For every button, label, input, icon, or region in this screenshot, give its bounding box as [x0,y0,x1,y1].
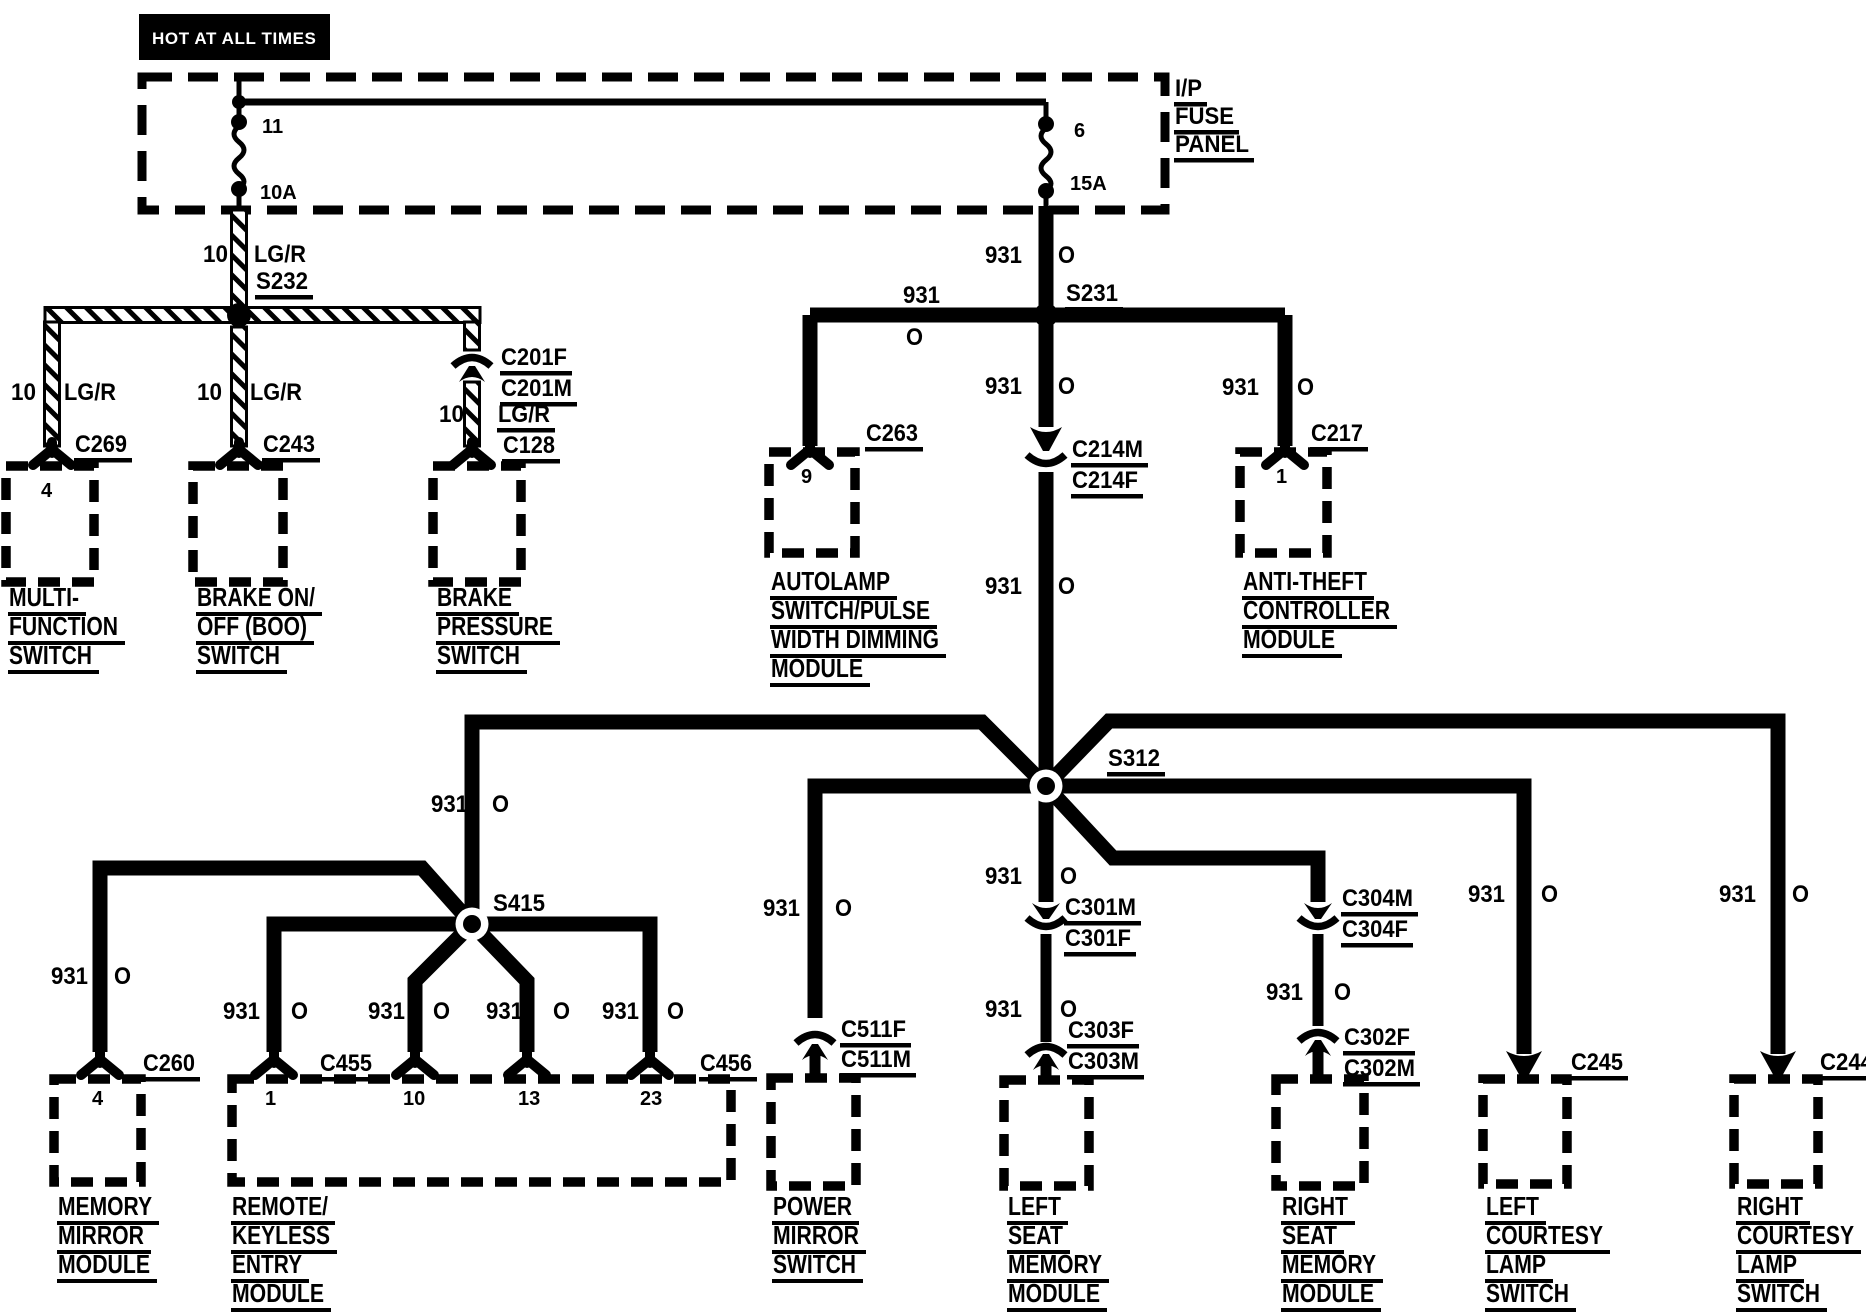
svg-text:LG/R: LG/R [250,379,302,406]
power feed label HOT AT ALL TIMES [139,14,330,60]
svg-text:O: O [1060,863,1077,890]
svg-text:FUNCTION: FUNCTION [9,611,118,641]
svg-text:O: O [835,895,852,922]
in-line connector C302F/C302M [1299,1033,1337,1042]
svg-text:MODULE: MODULE [1008,1278,1100,1308]
svg-text:SWITCH: SWITCH [9,640,92,670]
I/P fuse panel box [142,77,1165,210]
svg-text:4: 4 [41,480,53,502]
svg-text:11: 11 [262,116,283,138]
svg-text:SEAT: SEAT [1008,1220,1063,1250]
connector C244 arrow [1760,1051,1796,1078]
wire branch to S415 [472,722,1046,924]
svg-text:931: 931 [1266,979,1303,1006]
wire branch to left courtesy lamp switch [1046,786,1524,1054]
svg-text:C456: C456 [700,1050,752,1077]
junction node [232,95,246,109]
svg-text:MEMORY: MEMORY [58,1191,152,1221]
power mirror switch box [771,1078,856,1186]
svg-text:SEAT: SEAT [1282,1220,1337,1250]
svg-text:13: 13 [518,1088,540,1110]
svg-text:O: O [291,998,308,1025]
remote keyless entry module box [232,1079,731,1182]
svg-text:6: 6 [1074,120,1085,142]
svg-text:MODULE: MODULE [1243,624,1335,654]
wire 10 LG/R from fuse 11 [232,210,247,308]
splice S231 dot [1034,303,1058,327]
svg-text:COURTESY: COURTESY [1737,1220,1854,1250]
splice S312 dot [1030,770,1063,803]
svg-text:C201M: C201M [501,375,572,402]
svg-text:MODULE: MODULE [1282,1278,1374,1308]
svg-text:MIRROR: MIRROR [58,1220,144,1250]
svg-text:931: 931 [985,863,1022,890]
wire fuse-panel feed [237,77,242,122]
svg-text:931: 931 [1468,881,1505,908]
svg-text:MEMORY: MEMORY [1282,1249,1376,1279]
svg-text:C243: C243 [263,431,315,458]
svg-text:C303F: C303F [1068,1017,1134,1044]
wire branch to memory mirror module [100,868,472,1052]
svg-text:CONTROLLER: CONTROLLER [1243,595,1390,625]
svg-text:FUSE: FUSE [1175,103,1234,130]
svg-text:PRESSURE: PRESSURE [437,611,553,641]
wire 931 to C263 [803,315,818,446]
svg-text:C303M: C303M [1068,1048,1139,1075]
right courtesy lamp switch box [1734,1079,1818,1184]
connector C243 [220,442,258,465]
svg-text:931: 931 [985,242,1022,269]
svg-text:C511F: C511F [841,1016,906,1043]
connector C455 pin 1 [255,1052,293,1075]
svg-text:O: O [433,998,450,1025]
svg-text:10: 10 [439,401,464,428]
svg-text:931: 931 [51,963,88,990]
svg-text:C511M: C511M [841,1046,911,1073]
wire to C201F [465,322,480,350]
svg-text:OFF (BOO): OFF (BOO) [197,611,307,641]
svg-text:RIGHT: RIGHT [1282,1191,1348,1221]
svg-text:KEYLESS: KEYLESS [232,1220,330,1250]
svg-text:C245: C245 [1571,1049,1623,1076]
svg-text:AUTOLAMP: AUTOLAMP [771,566,890,596]
svg-text:23: 23 [640,1088,662,1110]
svg-text:LG/R: LG/R [254,241,306,268]
svg-text:931: 931 [368,998,405,1025]
svg-text:C214M: C214M [1072,436,1143,463]
svg-text:10A: 10A [260,182,297,204]
svg-text:MEMORY: MEMORY [1008,1249,1102,1279]
svg-text:MULTI-: MULTI- [9,582,79,612]
svg-text:PANEL: PANEL [1175,131,1249,158]
in-line connector C201F/C201M [453,358,491,367]
fuse 6 15A [1044,102,1049,124]
svg-text:C201F: C201F [501,344,567,371]
svg-text:C301F: C301F [1065,925,1131,952]
svg-text:O: O [667,998,684,1025]
svg-text:MODULE: MODULE [58,1249,150,1279]
svg-text:O: O [492,791,509,818]
LG/R distribution bus [45,308,480,323]
svg-text:O: O [1541,881,1558,908]
svg-text:SWITCH: SWITCH [1737,1278,1820,1308]
svg-text:O: O [1058,373,1075,400]
svg-text:S415: S415 [493,890,545,917]
svg-text:BRAKE ON/: BRAKE ON/ [197,582,315,612]
svg-text:931: 931 [985,373,1022,400]
svg-text:ANTI-THEFT: ANTI-THEFT [1243,566,1367,596]
svg-text:I/P: I/P [1175,75,1202,102]
right seat memory module box [1276,1079,1364,1186]
fuse 11 10A [231,114,247,130]
svg-text:SWITCH: SWITCH [437,640,520,670]
svg-text:BRAKE: BRAKE [437,582,512,612]
svg-text:REMOTE/: REMOTE/ [232,1191,328,1221]
wire branch to C455 pin 1 [274,924,472,1052]
svg-text:C128: C128 [503,432,555,459]
splice S232 dot [227,303,251,327]
svg-text:SWITCH: SWITCH [197,640,280,670]
svg-text:931: 931 [223,998,260,1025]
wire 931 to C214M [1039,315,1054,427]
svg-text:C269: C269 [75,431,127,458]
wire branch to pin 10 [415,924,472,1052]
svg-text:LG/R: LG/R [498,401,550,428]
left seat memory module box [1004,1080,1089,1186]
wire branch to power mirror switch [815,786,1046,1018]
splice S415 dot [456,908,489,941]
svg-text:931: 931 [1222,374,1259,401]
svg-text:10: 10 [403,1088,425,1110]
svg-text:SWITCH/PULSE: SWITCH/PULSE [771,595,930,625]
svg-text:LAMP: LAMP [1486,1249,1546,1279]
wire 931 down to C301M [1039,786,1054,902]
svg-text:931: 931 [985,996,1022,1023]
svg-text:POWER: POWER [773,1191,852,1221]
svg-text:O: O [1334,979,1351,1006]
svg-text:MODULE: MODULE [771,653,863,683]
wire 931 to C217 [1278,315,1293,446]
svg-text:O: O [1792,881,1809,908]
svg-text:C301M: C301M [1065,894,1136,921]
svg-text:15A: 15A [1070,173,1107,195]
connector C217 [1266,442,1304,465]
svg-text:C214F: C214F [1072,467,1138,494]
svg-text:C304M: C304M [1342,885,1413,912]
wire link to fuse 6 [239,99,1046,106]
wire branch to right courtesy lamp switch [1046,721,1778,1054]
svg-text:931: 931 [602,998,639,1025]
svg-text:COURTESY: COURTESY [1486,1220,1603,1250]
svg-text:O: O [1058,573,1075,600]
svg-text:C304F: C304F [1342,916,1408,943]
wire branch to pin 13 [472,924,527,1052]
svg-text:10: 10 [11,379,36,406]
svg-text:S312: S312 [1108,745,1160,772]
wire branch to right seat memory module [1046,786,1318,902]
svg-text:O: O [906,324,923,351]
svg-text:S232: S232 [256,268,308,295]
svg-text:SWITCH: SWITCH [773,1249,856,1279]
wire 931 to S312 [1039,472,1054,786]
svg-text:931: 931 [985,573,1022,600]
svg-text:931: 931 [1719,881,1756,908]
connector C456 pin 23 [631,1052,669,1075]
in-line connector C214M/C214F [1030,427,1062,451]
svg-text:O: O [114,963,131,990]
connector C245 arrow [1506,1051,1542,1078]
wire to C243 [232,327,247,446]
svg-text:S231: S231 [1066,280,1118,307]
svg-text:O: O [1297,374,1314,401]
svg-text:C260: C260 [143,1050,195,1077]
svg-text:4: 4 [92,1088,104,1110]
connector C269 [33,442,71,465]
svg-text:MODULE: MODULE [232,1278,324,1308]
svg-text:10: 10 [197,379,222,406]
wire S231 cross bus [810,308,1285,323]
svg-text:MIRROR: MIRROR [773,1220,859,1250]
in-line connector C303F/C303M [1027,1047,1065,1056]
svg-text:931: 931 [431,791,468,818]
svg-text:931: 931 [903,282,940,309]
in-line connector C511F/C511M [796,1035,834,1044]
svg-text:LG/R: LG/R [64,379,116,406]
svg-text:O: O [553,998,570,1025]
svg-text:931: 931 [486,998,523,1025]
svg-text:10: 10 [203,241,228,268]
connector C260 [81,1052,119,1075]
svg-text:1: 1 [1276,466,1287,488]
svg-text:C244: C244 [1820,1049,1866,1076]
svg-text:C217: C217 [1311,420,1363,447]
connector C263 [791,442,829,465]
svg-text:C263: C263 [866,420,918,447]
svg-text:LEFT: LEFT [1486,1191,1539,1221]
svg-text:SWITCH: SWITCH [1486,1278,1569,1308]
svg-text:LEFT: LEFT [1008,1191,1061,1221]
wire 931 O from fuse 6 [1039,206,1054,315]
in-line connector C304M/C304F [1304,903,1332,919]
svg-text:931: 931 [763,895,800,922]
svg-text:HOT AT ALL TIMES: HOT AT ALL TIMES [152,29,316,48]
left courtesy lamp switch box [1483,1079,1567,1184]
connector C128 [453,442,491,465]
wire 10 LG/R to C128 [465,382,480,446]
wire to C269 [45,322,60,446]
svg-text:ENTRY: ENTRY [232,1249,302,1279]
svg-text:C455: C455 [320,1050,372,1077]
svg-text:LAMP: LAMP [1737,1249,1797,1279]
in-line connector C301M/C301F [1032,903,1060,919]
svg-text:RIGHT: RIGHT [1737,1191,1803,1221]
svg-text:C302F: C302F [1344,1024,1410,1051]
svg-text:1: 1 [265,1088,276,1110]
svg-text:9: 9 [801,466,812,488]
svg-text:WIDTH DIMMING: WIDTH DIMMING [771,624,939,654]
wire branch to pin 23 [472,924,650,1052]
svg-text:O: O [1058,242,1075,269]
